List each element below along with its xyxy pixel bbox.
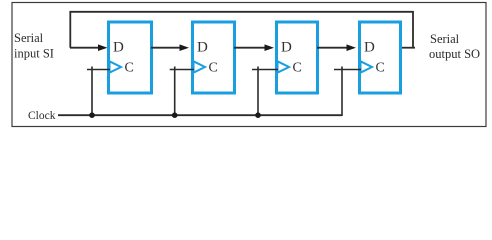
wire FF1 Q to FF2 D	[151, 47, 181, 49]
svg-text:C: C	[209, 61, 218, 76]
svg-text:D: D	[197, 40, 208, 56]
label Serial output SO	[429, 32, 480, 61]
svg-text:output SO: output SO	[429, 47, 480, 61]
svg-text:C: C	[376, 61, 385, 76]
wire clock corner to U4 C	[341, 67, 343, 117]
svg-text:C: C	[293, 61, 302, 76]
wire SI into D of FF1	[70, 47, 100, 49]
wire FF3 Q to FF4 D	[317, 47, 348, 49]
svg-text:C: C	[125, 61, 134, 76]
junction dot clock/U2	[172, 112, 178, 118]
label Serial input SI	[14, 31, 54, 61]
wire FF4 Q to right vertical	[401, 47, 416, 49]
svg-text:D: D	[364, 40, 375, 56]
svg-text:Serial: Serial	[14, 31, 44, 45]
svg-text:D: D	[281, 40, 292, 56]
junction dot clock/U3	[255, 112, 261, 118]
svg-text:Serial: Serial	[430, 32, 460, 46]
flip-flop U3	[277, 22, 318, 93]
junction dot clock/U1	[89, 112, 95, 118]
wire clock bus	[58, 114, 342, 116]
flip-flop U2	[193, 22, 235, 93]
svg-text:D: D	[113, 40, 124, 56]
flip-flop U4	[360, 22, 401, 93]
wire clock stub to U1 C	[91, 67, 93, 116]
wire FF2 Q to FF3 D	[234, 47, 266, 49]
wire feedback top	[70, 12, 413, 48]
svg-text:Clock: Clock	[28, 110, 56, 122]
wire clock stub to U2 C	[174, 67, 176, 116]
svg-text:input SI: input SI	[14, 47, 54, 61]
wire clock stub to U3 C	[257, 67, 259, 116]
flip-flop U1	[109, 22, 152, 93]
